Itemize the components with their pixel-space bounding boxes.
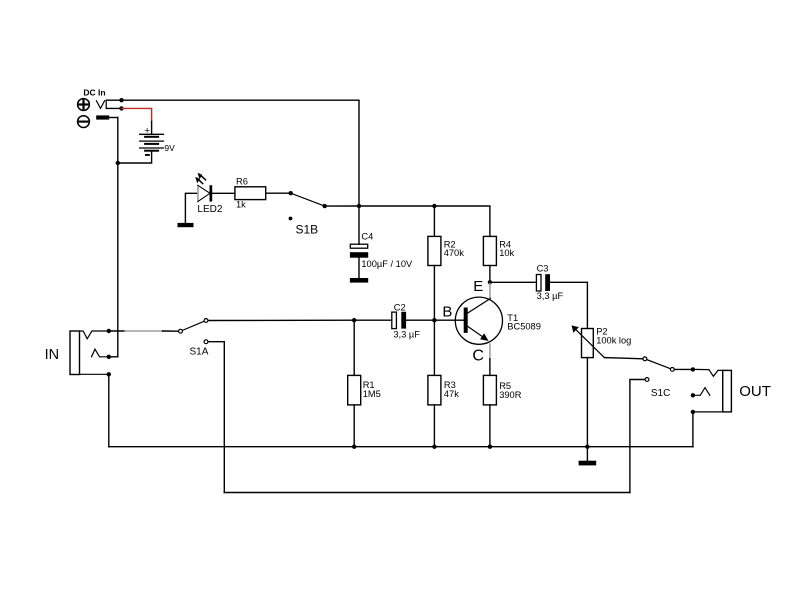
wire base (434, 319, 463, 321)
svg-text:R6: R6 (236, 176, 248, 186)
svg-text:BC5089: BC5089 (507, 322, 541, 332)
wire C3 to P2 (550, 282, 587, 328)
node R1 top (352, 318, 356, 322)
wire LED anode to ground (185, 193, 198, 223)
ground rail (109, 446, 693, 448)
resistor R5 390R (483, 375, 521, 405)
node battery-/DC- junction (116, 161, 120, 165)
wire DC- to vertical (109, 117, 118, 119)
svg-text:470k: 470k (444, 248, 465, 258)
node ground rail P2 (585, 445, 589, 449)
wire P2 bottom to ground rail (586, 358, 588, 447)
wire R1 bottom to rail (353, 405, 355, 447)
svg-text:B: B (442, 303, 452, 320)
node B (432, 318, 436, 322)
svg-text:OUT: OUT (739, 383, 771, 400)
svg-text:10k: 10k (499, 248, 514, 258)
ground main (579, 461, 597, 466)
wire S1C pole to OUT tip (675, 368, 693, 370)
wire battery minus to DC- line (118, 152, 152, 163)
switch S1C (643, 357, 674, 399)
svg-text:1M5: 1M5 (363, 389, 381, 399)
resistor R4 10k (483, 236, 514, 265)
svg-text:47k: 47k (444, 389, 459, 399)
wire R5 bottom to rail (489, 405, 491, 447)
wire DC- vertical down to IN jack ring (117, 118, 119, 357)
wire S1C lower throw to bypass (630, 380, 645, 493)
svg-text:1k: 1k (236, 200, 246, 210)
capacitor C4 100uF (350, 206, 413, 278)
wire bypass bottom (224, 492, 630, 494)
node E (488, 280, 492, 284)
capacitor C2 3.3uF (392, 302, 420, 339)
wire IN tip lead gray (109, 330, 125, 332)
wire C lead to R5 (489, 359, 491, 376)
svg-text:S1B: S1B (296, 223, 319, 237)
node rail R5 (488, 445, 492, 449)
svg-text:S1C: S1C (651, 388, 670, 399)
IN jack (45, 329, 111, 377)
resistor R1 1M5 (348, 320, 381, 405)
node rail R1 (352, 445, 356, 449)
transistor T1 BC5089 (442, 278, 541, 365)
wire C2 to B node (406, 319, 434, 321)
svg-text:C4: C4 (361, 231, 373, 241)
resistor R6 1k (235, 176, 266, 209)
node battery+ tap (119, 106, 123, 110)
svg-text:3,3 µF: 3,3 µF (537, 291, 564, 301)
ground under C4 (350, 278, 368, 283)
node C4/top-rail (357, 204, 361, 208)
svg-text:9V: 9V (164, 143, 175, 153)
svg-text:DC In: DC In (83, 88, 105, 98)
wire red battery+ (122, 108, 152, 121)
ground under LED (178, 223, 194, 227)
svg-text:100µF / 10V: 100µF / 10V (361, 259, 413, 269)
wire S1B to supply bus (325, 205, 359, 207)
wire R6 to S1B (266, 192, 291, 194)
wire bus to R4 (434, 206, 490, 236)
wire to ground symbol (586, 447, 588, 461)
node rail R3 (432, 445, 436, 449)
wire P2 wiper to S1C (604, 358, 642, 359)
svg-text:E: E (473, 278, 483, 295)
wire IN sleeve down to ground rail (108, 374, 110, 446)
svg-text:C: C (472, 348, 484, 365)
wire OUT sleeve to ground rail (692, 412, 694, 447)
LED LED2 (195, 173, 223, 215)
wire R3 bottom to rail (433, 405, 435, 447)
svg-text:S1A: S1A (190, 346, 209, 357)
wire LED cathode to R6 (212, 192, 235, 194)
battery B1 9V (140, 125, 175, 156)
wire R2 bottom to B node (433, 266, 435, 321)
wire to IN ring (109, 356, 118, 358)
DC- pin bar (96, 115, 109, 119)
wire E to C3 (490, 281, 536, 283)
svg-text:C3: C3 (537, 264, 549, 274)
resistor R3 47k (428, 375, 459, 405)
wire to C2 (354, 319, 392, 321)
svg-text:IN: IN (45, 347, 60, 363)
DC plus terminal symbol (78, 99, 90, 111)
resistor R2 470k (428, 206, 464, 266)
wire +9V top rail (122, 100, 360, 206)
wire R4 bottom to E node (489, 266, 491, 283)
wire S1A upper throw to C2 (208, 319, 354, 321)
svg-text:3,3 µF: 3,3 µF (393, 330, 420, 340)
wire battery top lead (151, 121, 153, 134)
wire B node down to R3 (433, 320, 435, 375)
switch S1A (179, 319, 209, 358)
OUT jack (691, 367, 771, 414)
svg-text:390R: 390R (499, 390, 522, 400)
capacitor C3 3.3uF (536, 264, 563, 302)
potentiometer P2 100k log (572, 325, 632, 357)
DC minus terminal symbol (78, 116, 90, 128)
svg-text:LED2: LED2 (197, 204, 222, 215)
switch S1B (289, 191, 327, 237)
DC jack tip contact (96, 101, 104, 109)
wire DC+ top stub (106, 99, 121, 101)
wire DC+ lower stub (106, 107, 121, 109)
node R2 top (432, 204, 436, 208)
wire supply bus (359, 205, 434, 207)
svg-text:100k log: 100k log (596, 336, 631, 346)
wire S1A lower throw to bypass (208, 342, 224, 493)
node DC+ (119, 98, 123, 102)
svg-text:C2: C2 (394, 302, 406, 312)
